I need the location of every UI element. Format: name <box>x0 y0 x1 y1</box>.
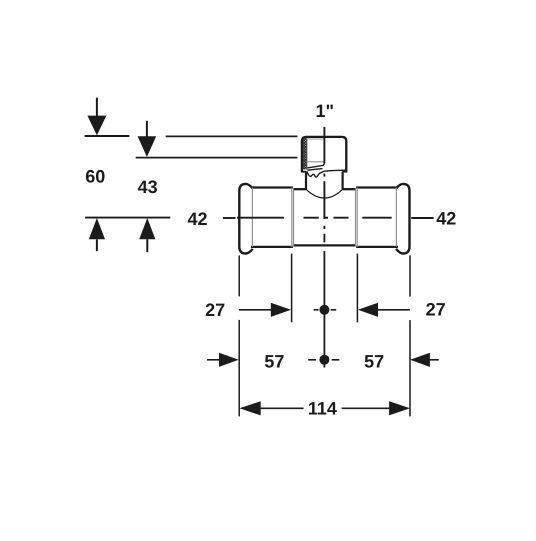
right diameter step inner line <box>355 189 357 245</box>
center mark tick left row2 <box>308 359 316 361</box>
right 42 leader line <box>411 217 433 219</box>
vertical centerline dash 3 <box>323 234 325 243</box>
dim 57 far-left arrow head <box>219 353 239 367</box>
extension line from branch top <box>166 135 298 137</box>
dim 27 left tail line <box>239 309 271 311</box>
svg-text:42: 42 <box>187 209 207 229</box>
break-out wavy line <box>307 170 346 177</box>
horizontal axis dot dash center <box>324 217 328 219</box>
collar bottom left edge <box>301 171 307 173</box>
center section bottom edge <box>293 244 355 246</box>
thread bore edge line <box>306 138 308 169</box>
vertical centerline dot dash 2 <box>323 226 325 229</box>
thread runout wedge lower line <box>307 169 322 171</box>
right press bead <box>396 184 410 254</box>
extension line left outer upper <box>238 255 240 296</box>
extension line right outer upper <box>409 255 411 296</box>
vertical centerline lower solid segment <box>323 251 325 367</box>
svg-text:57: 57 <box>264 351 284 371</box>
center reference dot row1 <box>319 305 329 315</box>
dim 114 right line <box>342 407 390 409</box>
thread hatch band <box>303 138 307 169</box>
collar bottom right edge <box>342 171 347 173</box>
center mark tick left row1 <box>314 309 319 311</box>
dim 60 down arrow head <box>87 116 106 136</box>
svg-text:60: 60 <box>85 167 105 187</box>
center section top edge right part <box>343 188 356 190</box>
left diameter step outer line <box>291 188 293 247</box>
extension line right outer lower <box>409 320 411 416</box>
svg-text:43: 43 <box>138 177 158 197</box>
extension line right step <box>356 254 358 323</box>
right socket-bead junction line <box>395 188 397 247</box>
svg-text:114: 114 <box>308 398 337 418</box>
dim 27 right arrow head <box>358 303 378 317</box>
shared bottom line at pipe axis <box>85 217 170 219</box>
center mark tick right row1 <box>331 309 337 311</box>
svg-text:27: 27 <box>205 300 225 320</box>
dim 60 top line <box>85 135 130 137</box>
dim 60 down arrow stem <box>96 98 98 117</box>
branch neck right wall <box>342 172 344 190</box>
center mark tick right row2 <box>332 359 340 361</box>
dim 27 right tail line <box>378 309 410 311</box>
left 42 leader dash <box>223 217 236 219</box>
dim 43 down arrow head <box>138 136 157 157</box>
extension line left outer lower <box>238 320 240 417</box>
left bead-socket junction line <box>251 188 253 247</box>
extension line left step <box>291 254 293 323</box>
left diameter step inner line <box>293 189 295 245</box>
vertical centerline dot dash <box>323 174 325 177</box>
left socket top edge <box>251 186 293 188</box>
svg-text:57: 57 <box>364 351 384 371</box>
dim 60 up arrow head <box>89 218 105 239</box>
dim 57 far-left arrow tail <box>207 359 220 361</box>
branch neck left wall <box>305 173 307 190</box>
bore bottom line <box>307 161 324 163</box>
center reference dot row2 <box>319 355 329 365</box>
right socket bottom edge <box>356 246 398 248</box>
dim 27 left arrow head <box>271 303 291 317</box>
right diameter step outer line <box>356 188 358 247</box>
svg-text:1": 1" <box>316 101 335 121</box>
dim 114 left line <box>261 407 304 409</box>
thread runout wedge upper line <box>307 163 324 168</box>
horizontal axis dash crossing left socket <box>237 217 284 219</box>
left press bead <box>239 184 253 254</box>
branch bore dome arc in body <box>306 189 342 198</box>
dim 43 down arrow stem <box>146 121 148 138</box>
vertical centerline upper segment <box>323 127 325 163</box>
dim 114 right arrow head <box>389 401 410 415</box>
dim 57 far-right arrow tail <box>430 359 439 361</box>
dim 43 top line and extension <box>136 157 298 159</box>
center section top edge left part <box>293 188 305 190</box>
horizontal axis dash center right <box>334 217 349 219</box>
svg-text:42: 42 <box>436 209 456 229</box>
dim 43 up arrow stem <box>146 239 148 252</box>
svg-text:27: 27 <box>426 300 446 320</box>
bore top chamfer line <box>307 138 324 140</box>
dim 114 left arrow head <box>239 401 260 415</box>
dim 57 far-right arrow head <box>410 353 430 367</box>
right socket top edge <box>356 186 398 188</box>
dim 60 up arrow stem <box>96 239 98 251</box>
vertical centerline middle segment <box>323 181 325 219</box>
left socket bottom edge <box>251 246 293 248</box>
dim 43 up arrow head <box>139 218 155 239</box>
branch collar outline <box>302 137 346 172</box>
horizontal axis dash crossing right socket <box>362 217 391 219</box>
horizontal axis dash center left <box>304 217 319 219</box>
